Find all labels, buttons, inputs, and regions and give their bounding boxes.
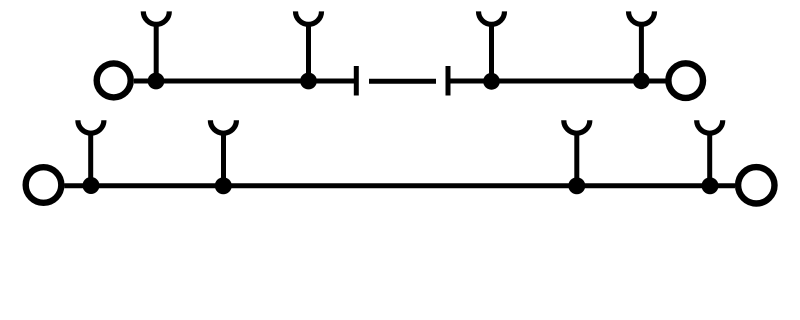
junction dot (bottom 2) xyxy=(215,177,232,194)
terminal circle P2 (top right) xyxy=(668,63,703,98)
wire (top left segment) xyxy=(134,79,354,84)
junction dot (top 4) xyxy=(633,72,650,89)
junction dot (bottom 1) xyxy=(83,177,100,194)
clamp fork 1 (top) xyxy=(143,11,169,81)
junction dot (top 3) xyxy=(483,73,500,90)
junction dot (bottom 3) xyxy=(568,177,585,194)
wire (top right segment) xyxy=(451,79,666,84)
top rail xyxy=(97,11,703,97)
clamp fork 1 (bottom) xyxy=(78,120,104,186)
terminal circle P4 (bottom right) xyxy=(738,167,774,203)
clamp fork 2 (top) xyxy=(296,11,322,81)
clamp fork 4 (bottom) xyxy=(697,120,723,186)
clamp fork 4 (top) xyxy=(629,11,655,81)
junction dot (top 1) xyxy=(148,73,165,90)
junction dot (bottom 4) xyxy=(702,177,719,194)
disconnect contact bar (left) xyxy=(354,66,359,96)
clamp fork 3 (top) xyxy=(479,11,505,81)
wire (bottom rail) xyxy=(64,183,735,188)
clamp fork 3 (bottom) xyxy=(564,120,590,186)
disconnect contact bar (right) xyxy=(446,66,451,96)
junction dot (top 2) xyxy=(300,73,317,90)
terminal circle P3 (bottom left) xyxy=(26,167,62,203)
bottom rail xyxy=(26,120,775,203)
clamp fork 2 (bottom) xyxy=(210,120,236,186)
terminal circle P1 (top left) xyxy=(97,63,131,97)
disconnect link bar (middle) xyxy=(369,79,436,84)
